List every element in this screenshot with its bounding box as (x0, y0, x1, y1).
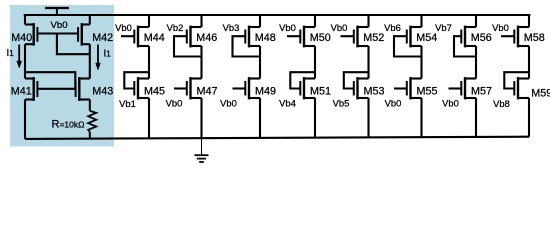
svg-text:M58: M58 (524, 32, 545, 44)
wire M44 drain to rail (148, 15, 150, 27)
transistor M42 (78, 23, 90, 45)
wire M58 source to M59 drain (528, 46, 530, 79)
wire M59 diode connection (504, 72, 529, 88)
wire M49 source to ground rail (259, 98, 261, 138)
svg-text:Vb0: Vb0 (115, 22, 132, 33)
wire M40 drain to rail (24, 15, 26, 25)
wire M45 diode connection (124, 72, 149, 88)
wire M50 source to M51 drain (314, 46, 316, 79)
wire M51 diode connection (290, 72, 315, 88)
wire M56 drain to rail (475, 15, 477, 27)
transistor M41 (25, 77, 37, 101)
svg-text:Vb3: Vb3 (223, 22, 240, 33)
wire M48 source to M49 drain (259, 46, 261, 79)
svg-text:Vb0: Vb0 (166, 98, 183, 109)
svg-text:M44: M44 (144, 32, 165, 44)
svg-text:M49: M49 (255, 86, 276, 98)
svg-text:Vb7: Vb7 (435, 22, 452, 33)
transistor M58 (514, 26, 529, 48)
wire M49 gate stub (233, 87, 246, 89)
wire M57 source to ground rail (475, 98, 477, 137)
svg-text:Vb2: Vb2 (167, 22, 184, 33)
transistor M57 (461, 77, 476, 99)
wire M46 drain to rail (200, 15, 202, 27)
svg-text:Vb0: Vb0 (385, 98, 402, 109)
wire M44 source to M45 drain (148, 46, 150, 79)
wire M54 source to M55 drain (420, 46, 422, 79)
power supply bar (45, 8, 69, 15)
wire M45 source to ground rail (148, 98, 150, 138)
svg-text:M45: M45 (144, 86, 165, 98)
wire M46 source to M47 drain (200, 46, 202, 79)
wire M57 gate stub (449, 87, 462, 89)
wire M56 diode connection (454, 36, 476, 56)
svg-text:Vb6: Vb6 (384, 22, 401, 33)
svg-text:Vb1: Vb1 (119, 98, 136, 109)
svg-text:M46: M46 (196, 32, 217, 44)
svg-text:R=10kΩ: R=10kΩ (52, 119, 85, 131)
wire M54 diode connection (394, 36, 422, 56)
wire M52 source to M53 drain (367, 46, 369, 79)
wire M52 drain to rail (367, 15, 369, 27)
transistor M43 (76, 77, 90, 101)
svg-text:Vb4: Vb4 (279, 98, 296, 109)
wire M54 drain to rail (420, 15, 422, 27)
current I1 right arrow (96, 45, 101, 71)
svg-text:M59: M59 (531, 87, 550, 99)
svg-text:M48: M48 (255, 32, 276, 44)
wire M41 diode connection (25, 72, 75, 89)
svg-text:Vb0: Vb0 (442, 98, 459, 109)
svg-text:Vb0: Vb0 (492, 22, 509, 33)
svg-text:I1: I1 (7, 48, 15, 59)
current I1 left arrow (17, 45, 22, 69)
svg-text:Vb5: Vb5 (333, 98, 350, 109)
wire M42 drain to rail (89, 15, 91, 25)
bias-core highlight box (10, 5, 114, 147)
resistor R 10k (88, 100, 96, 139)
transistor M45 (134, 77, 149, 99)
wire M55 gate stub (394, 87, 407, 89)
wire M53 diode connection (344, 72, 369, 88)
wire M58 drain to rail (528, 15, 530, 27)
wire M44 gate stub (121, 35, 134, 37)
transistor M40 (25, 23, 37, 45)
wire M59 source to ground rail (528, 98, 530, 137)
wire M40-M42 gate net (37, 32, 78, 34)
transistor M51 (300, 77, 315, 99)
svg-text:M56: M56 (471, 32, 492, 44)
wire M42 source to M43 drain (89, 44, 91, 78)
wire M41 source to ground rail (24, 100, 26, 139)
transistor M59 (514, 77, 529, 99)
transistor M54 (407, 26, 422, 48)
transistor M53 (354, 77, 369, 99)
svg-text:Vb0: Vb0 (220, 98, 237, 109)
transistor M49 (245, 77, 260, 99)
wire M47 source to ground rail (200, 98, 202, 138)
svg-text:M40: M40 (11, 32, 32, 44)
svg-text:M51: M51 (310, 86, 331, 98)
svg-text:M54: M54 (416, 32, 437, 44)
wire M56 source to M57 drain (475, 46, 477, 79)
wire M48 drain to rail (259, 15, 261, 27)
transistor M48 (245, 26, 260, 48)
wire M52 gate stub (341, 35, 354, 37)
svg-text:Vb8: Vb8 (493, 98, 510, 109)
transistor M46 (187, 26, 202, 48)
svg-text:M52: M52 (363, 32, 384, 44)
transistor M55 (407, 77, 422, 99)
wire M51 source to ground rail (314, 98, 316, 138)
wire M41-M43 gate net (37, 88, 75, 90)
svg-text:M41: M41 (11, 86, 32, 98)
svg-text:M47: M47 (197, 86, 218, 98)
transistor M56 (461, 26, 476, 48)
wire M50 gate stub (287, 35, 300, 37)
transistor M50 (300, 26, 315, 48)
wire M53 source to ground rail (367, 98, 369, 137)
svg-text:M57: M57 (471, 86, 492, 98)
wire M50 drain to rail (314, 15, 316, 27)
wire M40 source to M41 drain (24, 44, 26, 78)
wire M46 diode connection (174, 36, 202, 56)
svg-text:M42: M42 (92, 32, 113, 44)
svg-text:M55: M55 (417, 86, 438, 98)
transistor M44 (134, 26, 149, 48)
wire M55 source to ground rail (420, 98, 422, 137)
svg-text:Vb0: Vb0 (279, 22, 296, 33)
transistor M47 (187, 77, 202, 99)
svg-text:M50: M50 (310, 32, 331, 44)
transistor M52 (354, 26, 369, 48)
svg-text:M43: M43 (92, 86, 113, 98)
svg-text:Vb0: Vb0 (331, 22, 348, 33)
svg-text:M53: M53 (364, 86, 385, 98)
ground (195, 138, 209, 162)
wire M58 gate stub (501, 35, 514, 37)
wire M48 diode connection (233, 36, 261, 56)
svg-text:Vb0: Vb0 (50, 20, 67, 31)
svg-text:I1: I1 (104, 49, 112, 60)
wire M47 gate stub (174, 87, 187, 89)
wire Vb0 top rail (24, 14, 531, 16)
wire ground bottom rail (25, 137, 529, 139)
wire M42 diode connection (57, 34, 90, 55)
